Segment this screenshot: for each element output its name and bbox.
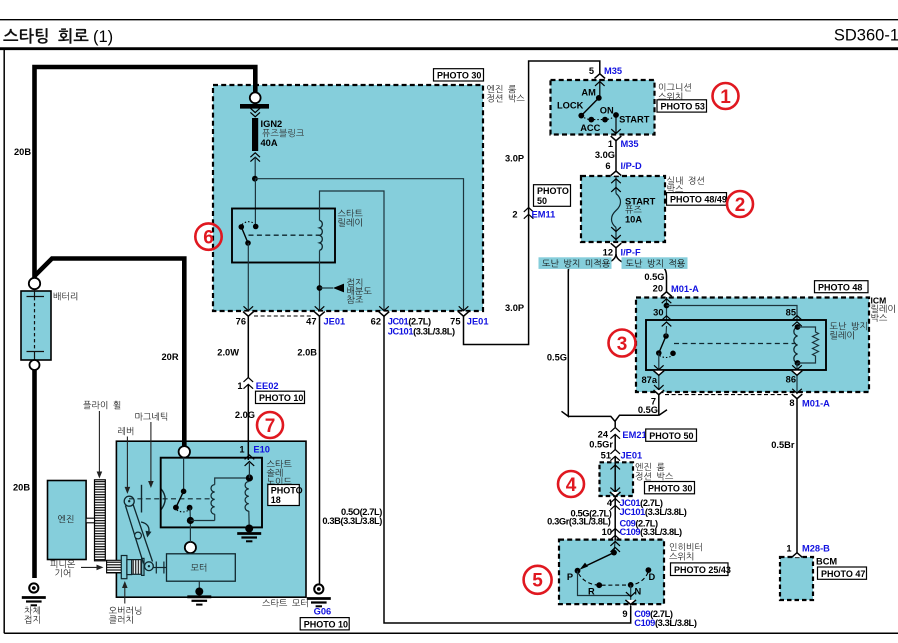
relay dashed link to coil [249, 234, 320, 236]
svg-text:PHOTO 48: PHOTO 48 [818, 282, 862, 292]
svg-text:18: 18 [271, 495, 281, 505]
lever linkage [125, 506, 143, 564]
svg-text:87a: 87a [641, 375, 657, 385]
label chip 도난 방지 적용 [626, 259, 685, 267]
fusible link IGN2 element bar [252, 118, 258, 151]
svg-text:10: 10 [602, 527, 612, 537]
svg-text:20: 20 [653, 284, 663, 294]
coil top dot [795, 324, 801, 330]
label 레버 + arrow [118, 427, 133, 435]
entry dot [611, 550, 617, 556]
inhibitor switch box [559, 540, 664, 605]
merge Y rails [562, 411, 616, 427]
pin 75 exit [459, 306, 469, 310]
svg-text:9: 9 [622, 609, 627, 619]
svg-text:PHOTO 50: PHOTO 50 [649, 431, 693, 441]
label 차체/접지 [25, 606, 41, 614]
wire 87a down to merge rail [658, 395, 660, 416]
svg-text:PHOTO 25/43: PHOTO 25/43 [674, 565, 731, 575]
svg-text:PHOTO: PHOTO [537, 186, 569, 196]
solenoid ground bars [237, 534, 261, 542]
svg-text:ACC: ACC [580, 123, 600, 133]
entry arrow pin85 [792, 316, 802, 320]
solenoid arm [176, 491, 184, 507]
label 실내 정션/박스 [667, 176, 704, 184]
fuse wire with chevrons [615, 177, 617, 194]
circled 5 [524, 566, 552, 594]
wire node to pull-in coil [190, 520, 214, 522]
wire junction down to relay contact [254, 179, 256, 226]
battery symbol internals [27, 288, 45, 360]
svg-text:C109(3.3L/3.8L): C109(3.3L/3.8L) [634, 618, 697, 628]
svg-text:PHOTO 48/49: PHOTO 48/49 [670, 195, 727, 205]
svg-text:0.5Gr: 0.5Gr [589, 440, 613, 450]
svg-text:47: 47 [306, 316, 316, 326]
svg-text:2: 2 [735, 195, 746, 216]
wire 20R battery to starter B+ [35, 259, 185, 448]
engine room junction box (small, item 4) [600, 462, 634, 496]
solenoid contact dot [181, 489, 187, 495]
parallel resistor [798, 327, 819, 363]
svg-text:1: 1 [786, 544, 791, 554]
chevrons below bar [250, 108, 260, 112]
svg-text:85: 85 [786, 308, 796, 318]
relay arm pivot dot [656, 350, 662, 356]
svg-text:1: 1 [237, 381, 242, 391]
shift collar [154, 562, 167, 574]
PHOTO 47 label box [818, 567, 867, 579]
connector EE02 [244, 378, 254, 389]
wire junction to pin75 column [255, 179, 464, 311]
dashed gate arc P-R-N-D [579, 573, 649, 586]
wire box4 to inhibitor [614, 497, 616, 540]
svg-text:I/P-F: I/P-F [621, 247, 641, 257]
connector 4 JC01/JC101 [610, 499, 620, 510]
BCM box [780, 557, 813, 600]
R dot [596, 582, 602, 588]
svg-text:2: 2 [512, 209, 517, 219]
arrow START down [615, 115, 617, 134]
N dot [628, 582, 634, 588]
relay arm [659, 336, 666, 353]
relay arm dotted travel arc [242, 222, 255, 225]
svg-text:75: 75 [450, 316, 460, 326]
ground distribution stub + triangle [320, 287, 334, 289]
pin12 I/P-F connector [611, 243, 622, 248]
motor terminal circle [185, 542, 196, 553]
svg-text:0.5G: 0.5G [644, 272, 664, 282]
svg-text:JE01: JE01 [621, 451, 643, 461]
label 피니온/기어 + arrow [50, 560, 75, 568]
connector EM21 [610, 428, 620, 439]
svg-text:G06: G06 [314, 607, 332, 617]
svg-text:START: START [619, 114, 650, 124]
label 엔진 룸/정션 박스 (top box) [487, 85, 516, 93]
relay alt contact dot [670, 351, 676, 357]
ground distribution junction dot [317, 285, 323, 291]
label 스타트/릴레이 [338, 209, 363, 217]
svg-text:2.0G: 2.0G [235, 410, 255, 420]
connector tie dashed 87a-86 [665, 394, 790, 396]
fusible link terminal circle [250, 92, 261, 103]
ACC dot [588, 117, 594, 123]
key arm AM to LOCK [581, 98, 599, 116]
wire pin62 down-around to inhibitor pin9 [384, 316, 631, 623]
header thick rule [0, 47, 898, 50]
wire P to N to exit [578, 571, 631, 596]
wire battery+ to top to fusible link [35, 67, 256, 283]
relay pivot dot [245, 240, 251, 246]
solenoid plunger fork [141, 485, 143, 513]
label 마그네틱 + arrow [135, 412, 167, 420]
svg-text:PHOTO 10: PHOTO 10 [259, 393, 303, 403]
wire alt contact to motor node [189, 508, 191, 521]
svg-text:LOCK: LOCK [557, 101, 584, 111]
hold-in coil top dot [246, 474, 253, 481]
chassis ground symbol [22, 583, 46, 605]
svg-text:5: 5 [532, 571, 543, 592]
label 스타트 모터 [262, 599, 307, 607]
svg-text:M01-A: M01-A [671, 284, 699, 294]
svg-text:START: START [625, 196, 656, 206]
wire battery- to chassis ground [32, 365, 37, 578]
svg-text:PHOTO 10: PHOTO 10 [304, 619, 348, 629]
engine box [48, 481, 87, 560]
svg-text:51: 51 [601, 451, 611, 461]
arm tip dot [173, 505, 179, 511]
svg-text:PHOTO 47: PHOTO 47 [821, 569, 865, 579]
wire M35 to fuse box [615, 141, 617, 171]
relay coil [794, 327, 798, 363]
svg-text:2.0B: 2.0B [297, 347, 317, 357]
circled 4 [558, 471, 584, 497]
svg-text:C109(3.3L/3.8L): C109(3.3L/3.8L) [620, 527, 683, 537]
title 스타팅 회로 (1) [3, 28, 113, 46]
label 인히비터/스위치 [670, 543, 702, 551]
motor ground [198, 581, 200, 591]
crankshaft link [86, 518, 94, 523]
starter motor box (solid) [116, 441, 306, 597]
svg-text:JE01: JE01 [324, 316, 346, 326]
svg-text:AM: AM [581, 88, 596, 98]
svg-text:1: 1 [720, 87, 731, 108]
svg-text:BCM: BCM [816, 557, 837, 567]
svg-text:62: 62 [371, 316, 381, 326]
E10 entry chevrons [248, 463, 250, 478]
wire pin75 to EM11 riser to ignition [464, 61, 600, 345]
label 엔진 룸/정션 박스 (box4) [636, 463, 665, 471]
travel dotted arc [177, 510, 189, 512]
hold-in coil [245, 482, 249, 512]
svg-text:JC101(3.3L/3.8L): JC101(3.3L/3.8L) [620, 507, 687, 517]
Y split from pin12 [568, 248, 616, 272]
svg-text:PHOTO: PHOTO [271, 486, 303, 496]
PHOTO 30 label box [434, 69, 484, 81]
svg-text:20B: 20B [14, 147, 31, 157]
pin 62 exit [379, 306, 389, 310]
circled 3 [609, 330, 636, 357]
svg-text:10A: 10A [625, 215, 642, 225]
wire pin76 to EE02 [247, 316, 249, 377]
dotted position arc LOCK-ACC-ON-START [581, 115, 616, 120]
wire pivot to pin76 [247, 243, 249, 311]
svg-text:M28-B: M28-B [802, 544, 830, 554]
header top rule [0, 19, 898, 21]
START dot [613, 112, 619, 118]
label 엔진 [58, 515, 73, 523]
fuse element S-curve [612, 194, 621, 228]
label 플라이 휠 + arrow [83, 401, 120, 409]
svg-text:JC01(2.7L): JC01(2.7L) [388, 316, 431, 326]
wire pin47 to G06 ground [319, 316, 321, 584]
wire to node 30 [666, 297, 668, 321]
start relay rectangle [232, 209, 335, 263]
wire EM21 to JE01 [614, 434, 616, 449]
coil bottom dot [795, 360, 801, 366]
selector arm arrow to P [583, 553, 615, 568]
label 배터리 [54, 292, 77, 300]
svg-text:2.0W: 2.0W [217, 347, 239, 357]
battery terminal top [29, 278, 40, 289]
D dot [646, 567, 652, 573]
svg-text:40A: 40A [261, 138, 278, 148]
flywheel gear strip [95, 480, 106, 561]
battery terminal bottom [30, 360, 40, 370]
clutch splined cylinder [132, 560, 142, 575]
motor node dot [187, 517, 194, 524]
wire element to junction [254, 157, 256, 179]
PHOTO 53 label box [657, 100, 707, 112]
relay contact dot [663, 333, 669, 339]
P dot [575, 568, 581, 574]
svg-text:I/P-D: I/P-D [621, 161, 642, 171]
plunger cup arc [161, 489, 165, 510]
svg-text:20R: 20R [162, 352, 179, 362]
svg-text:12: 12 [603, 247, 613, 257]
connector EM11 [524, 208, 534, 219]
ignition switch box [551, 80, 655, 135]
entry arrow pin30 [662, 299, 672, 303]
PHOTO 30 label box [645, 482, 695, 494]
G06 chassis ground [307, 584, 331, 606]
AM dot [596, 95, 602, 101]
svg-text:M35: M35 [604, 66, 622, 76]
solenoid ground dot [245, 525, 253, 533]
svg-text:EM21: EM21 [622, 430, 646, 440]
label 이그니션/스위치 [659, 83, 691, 91]
label 모터 [191, 563, 206, 571]
PHOTO 48 label box [815, 281, 869, 293]
svg-text:6: 6 [203, 227, 214, 248]
wire coil top link [215, 478, 250, 485]
svg-text:M35: M35 [621, 139, 639, 149]
label chip 도난 방지 미적용 [542, 259, 610, 267]
circled 6 [195, 223, 221, 249]
chevrons below element [250, 153, 260, 157]
svg-text:ON: ON [600, 106, 614, 116]
svg-text:50: 50 [537, 196, 547, 206]
relay coil [320, 220, 323, 250]
circled 2 [727, 191, 753, 217]
svg-text:4: 4 [566, 475, 577, 496]
starter solenoid rect [161, 458, 262, 528]
junction node dot [252, 176, 258, 182]
svg-text:8: 8 [789, 398, 794, 408]
anti-theft applied chip [622, 257, 688, 269]
ON dot [602, 117, 608, 123]
wire hold-in to ground [248, 511, 250, 528]
wire coil top to pin62 loop [320, 191, 385, 311]
pin 47 exit [315, 306, 325, 310]
svg-text:76: 76 [236, 316, 246, 326]
box4 bottom connector [610, 492, 621, 497]
ICM relay box [636, 298, 869, 393]
svg-text:PHOTO 30: PHOTO 30 [648, 483, 692, 493]
svg-text:3.0P: 3.0P [505, 153, 524, 163]
wire EE02 to starter E10 [247, 384, 249, 460]
svg-text:D: D [649, 572, 656, 582]
wire arm to 87a exit [658, 353, 660, 392]
label 오버러닝/클러치 + arrow [109, 606, 141, 614]
svg-text:JC101(3.3L/3.8L): JC101(3.3L/3.8L) [388, 327, 455, 337]
relay moving arm [241, 227, 248, 243]
svg-text:20B: 20B [13, 483, 30, 493]
pin1 M35 connector [611, 136, 622, 141]
dashed actuator axis [129, 498, 213, 500]
anti-theft relay inner rect [646, 320, 826, 370]
svg-text:N: N [635, 587, 642, 597]
entry chevrons [614, 540, 615, 553]
svg-text:JE01: JE01 [467, 316, 489, 326]
connector tie dashed 76-47 [254, 315, 313, 317]
svg-text:86: 86 [786, 375, 796, 385]
PHOTO 18 label box [268, 485, 303, 506]
PHOTO 48/49 label box [667, 193, 727, 206]
wire coil to 86 exit [796, 363, 798, 399]
rotation arrow [141, 522, 149, 534]
circled 1 [713, 83, 739, 109]
frame left border [3, 49, 5, 634]
svg-text:EE02: EE02 [256, 381, 279, 391]
overrunning clutch block [121, 556, 127, 579]
battery box [21, 291, 51, 360]
svg-text:0.5G: 0.5G [638, 405, 658, 415]
svg-text:3: 3 [617, 334, 628, 355]
svg-text:PHOTO 30: PHOTO 30 [437, 71, 481, 81]
wire BCM riser [796, 399, 798, 553]
node dot 30 [664, 303, 670, 309]
relay arm tip dot [239, 224, 245, 230]
svg-text:1: 1 [608, 139, 613, 149]
PHOTO 25/43 label box [671, 563, 731, 576]
entry connector 20 M01-A [661, 292, 672, 297]
svg-text:6: 6 [605, 161, 610, 171]
svg-text:0.3Gr(3.3L/3.8L): 0.3Gr(3.3L/3.8L) [547, 517, 611, 527]
indoor junction box (start fuse) [581, 176, 665, 242]
svg-text:5: 5 [589, 66, 594, 76]
svg-text:PHOTO 53: PHOTO 53 [661, 102, 705, 112]
label 스타트/솔레/노이드 [267, 460, 292, 468]
wire contact stub [665, 326, 668, 336]
svg-text:M01-A: M01-A [802, 398, 830, 408]
svg-text:SD360-1: SD360-1 [834, 27, 898, 45]
wire node to coil pin 85 [667, 306, 798, 321]
svg-text:EM11: EM11 [532, 209, 556, 219]
wire into box4 [614, 456, 616, 496]
alt contact dot [187, 505, 193, 511]
svg-text:7: 7 [265, 416, 276, 437]
svg-text:IGN2: IGN2 [261, 119, 283, 129]
frame bottom border [4, 632, 898, 634]
svg-text:4: 4 [607, 498, 613, 508]
label 도난 방지/릴레이 [830, 322, 867, 330]
svg-text:1: 1 [239, 444, 244, 454]
pinion gear strip [107, 560, 122, 573]
circled 7 [257, 412, 283, 438]
svg-text:24: 24 [598, 430, 609, 440]
svg-text:30: 30 [653, 307, 663, 317]
svg-text:E10: E10 [253, 444, 270, 454]
relay contact fixed dot [253, 224, 259, 230]
pin 76 exit [244, 306, 254, 310]
motor box [167, 554, 236, 581]
anti-theft not-applied chip [539, 257, 612, 269]
svg-text:P: P [567, 572, 573, 582]
svg-text:3.0P: 3.0P [505, 303, 524, 313]
left branch down [567, 271, 569, 413]
dashed link to coil [674, 343, 796, 345]
svg-text:0.3B(3.3L/3.8L): 0.3B(3.3L/3.8L) [322, 516, 382, 526]
arrow up to AM [599, 79, 601, 98]
svg-text:0.5G: 0.5G [547, 352, 567, 362]
pull-in coil [211, 485, 215, 515]
fusible link top bar [240, 104, 269, 109]
svg-text:3.0G: 3.0G [595, 150, 615, 160]
wire B+ to contact [183, 458, 185, 492]
engine room junction box (top, cyan dashed) [213, 85, 483, 311]
label 접지/배분도/참조 [347, 278, 362, 286]
B+ terminal circle [179, 446, 190, 457]
connector 51 JE01 [610, 450, 620, 461]
svg-text:0.5Br: 0.5Br [771, 440, 795, 450]
svg-text:ICM: ICM [871, 295, 887, 305]
relay travel dotted arc [660, 356, 673, 358]
wire coil bottom to pin47 [319, 250, 321, 311]
LOCK dot [578, 113, 584, 119]
svg-text:(1): (1) [93, 28, 113, 46]
